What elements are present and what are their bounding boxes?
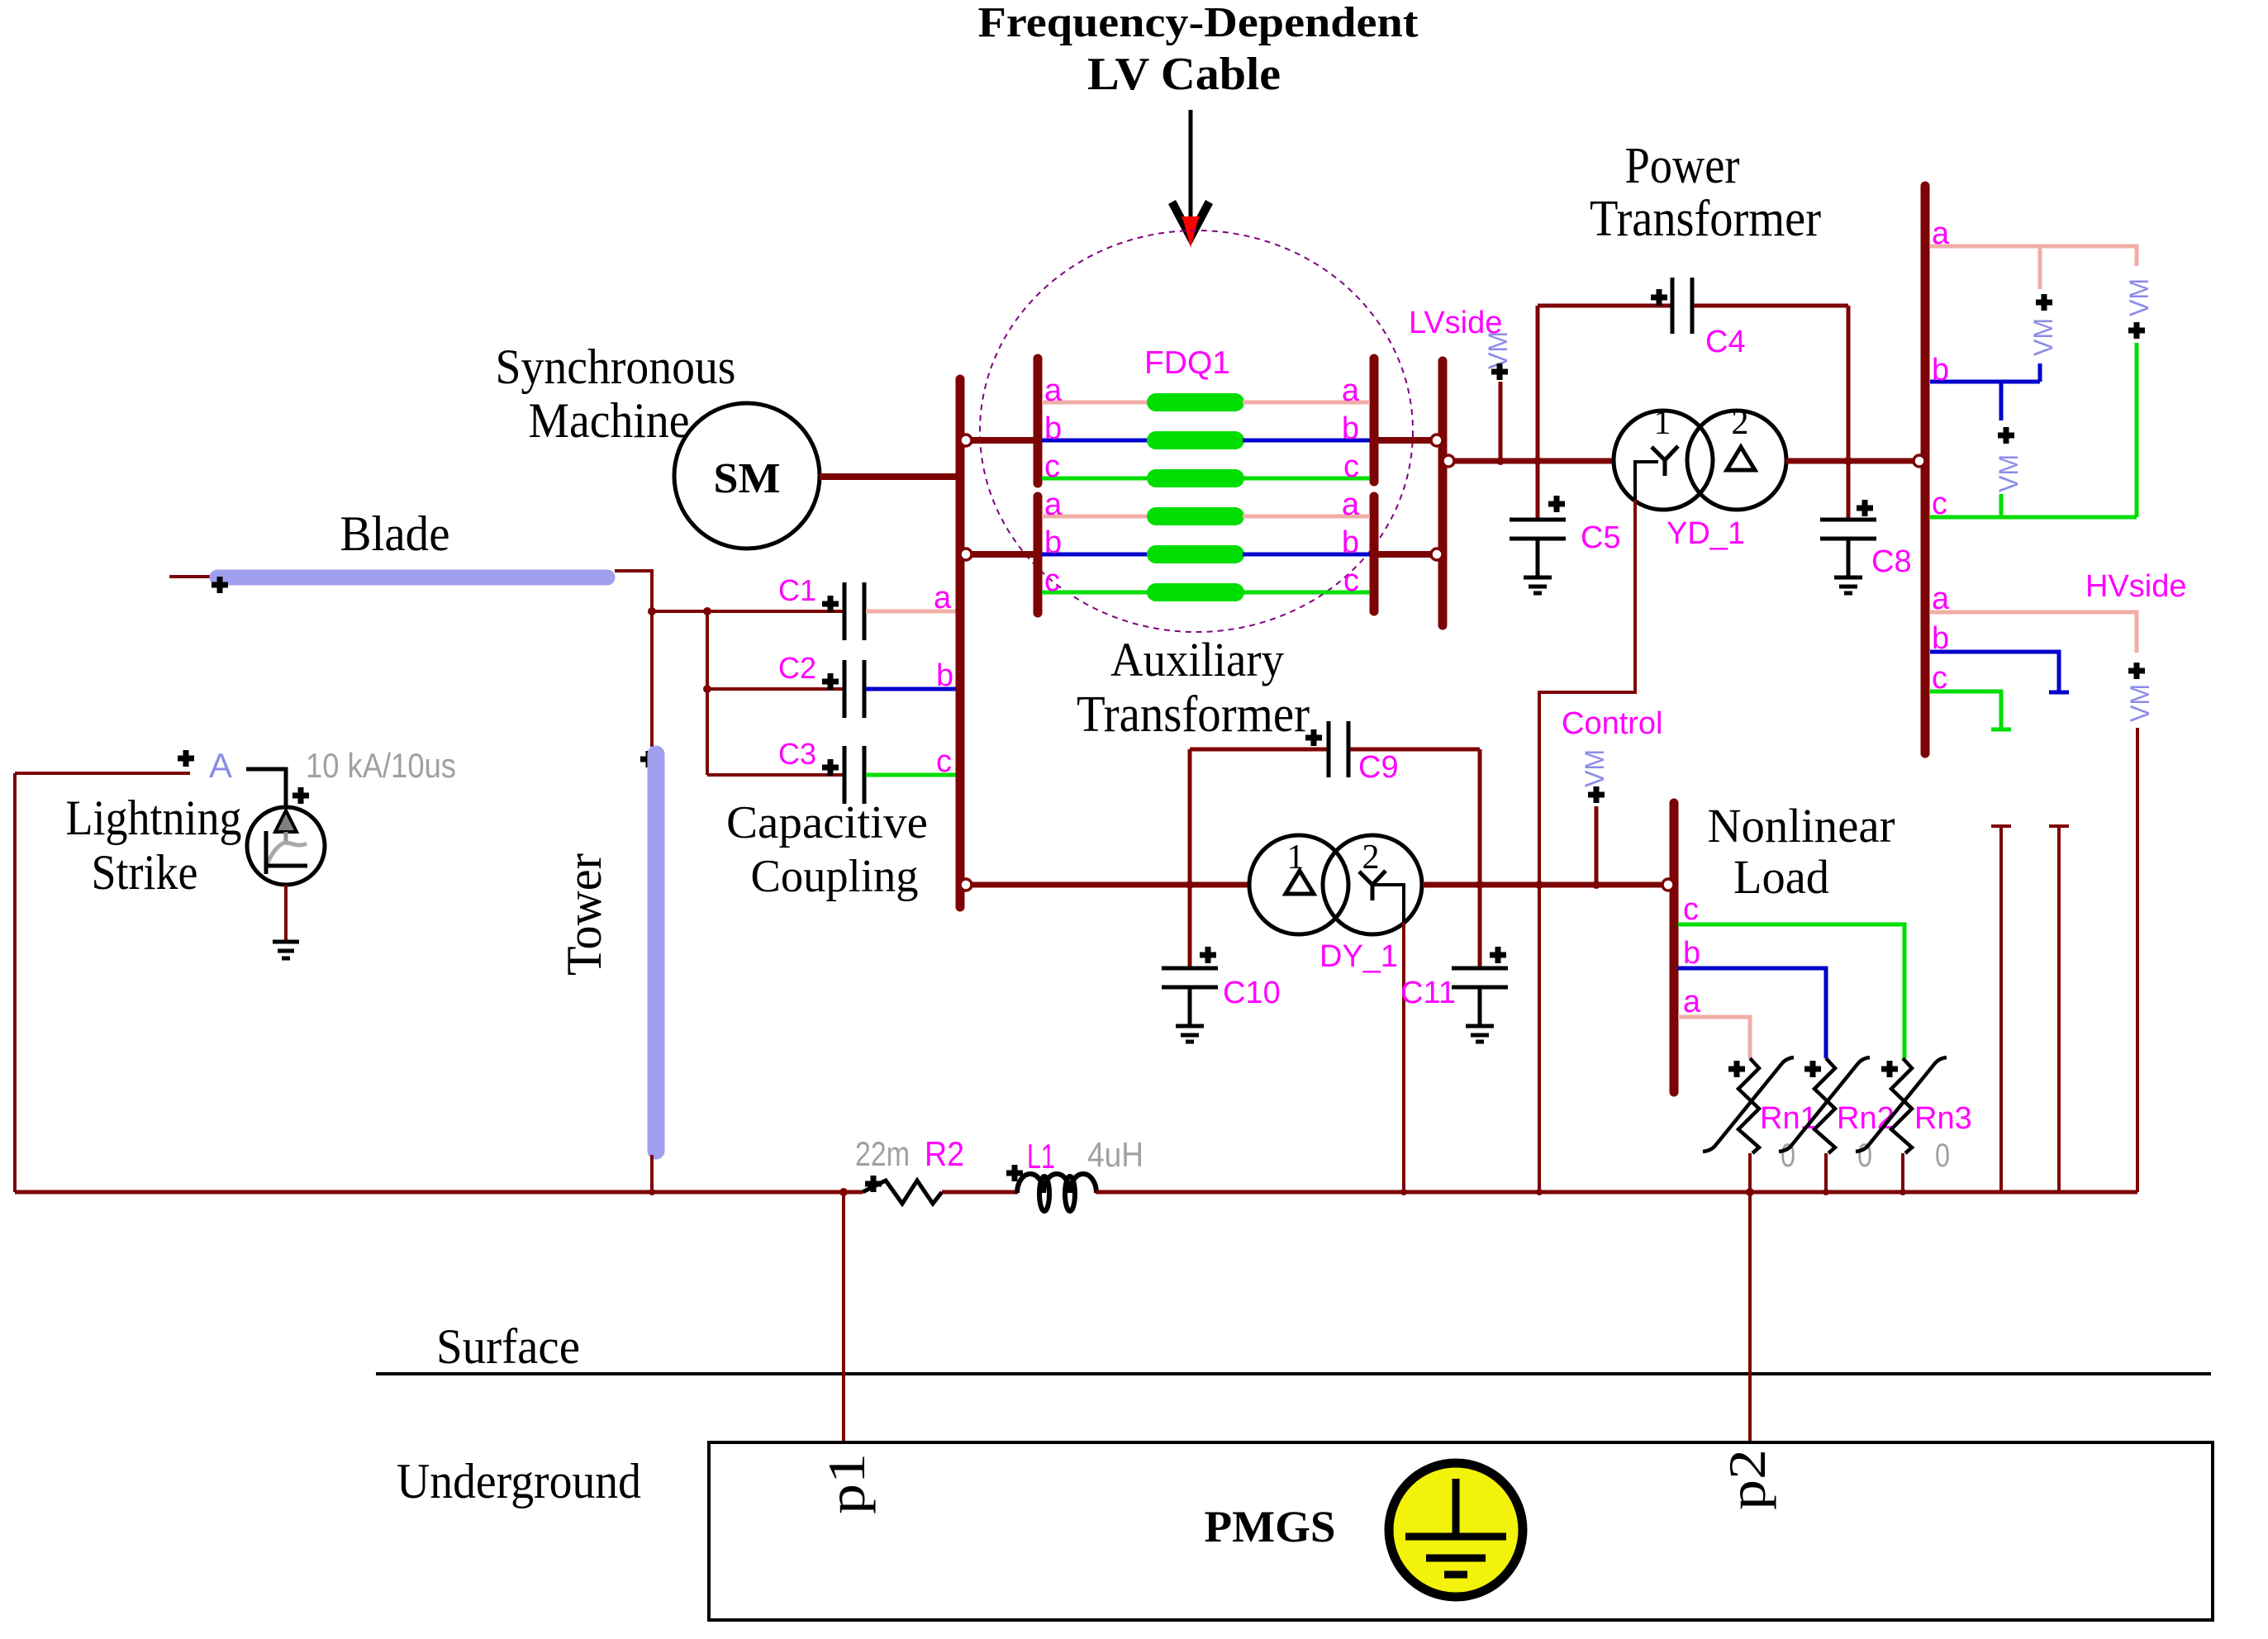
wire VM bc stub green: [1999, 494, 2004, 517]
svg-text:Lightning: Lightning: [66, 791, 242, 845]
wire FDQ phase b right (y=533): [1243, 439, 1370, 443]
wire C4 right vertical: [1847, 306, 1851, 461]
plus of C9: [1305, 729, 1322, 746]
capacitor C4: [1672, 278, 1692, 334]
svg-text:YD_1: YD_1: [1667, 516, 1745, 551]
voltmeter VM at LVside: [1483, 331, 1513, 461]
svg-text:C1: C1: [778, 573, 816, 607]
plus of C10: [1200, 947, 1216, 963]
svg-text:Auxiliary: Auxiliary: [1110, 633, 1284, 686]
bus stub FDQ to LVside bus top: [1374, 437, 1443, 444]
voltmeter VM at HVside a: [2125, 663, 2155, 722]
svg-text:c: c: [1044, 449, 1060, 484]
wire VM ab stub blue: [2038, 363, 2042, 382]
svg-text:c: c: [1343, 449, 1359, 484]
svg-text:c: c: [1932, 661, 1947, 696]
wire row to C2: [707, 687, 843, 691]
svg-text:4uH: 4uH: [1087, 1135, 1144, 1174]
wire HVside VM to ground bus: [2136, 728, 2139, 1192]
wire C9 right vertical to C11: [1478, 749, 1482, 968]
cable segment FDQ1 phase b (green pill): [1147, 545, 1244, 563]
text Lightning Strike: [66, 791, 242, 900]
voltmeter VM at Control: [1580, 749, 1609, 885]
nonlinear resistor Rn2: [1779, 1057, 1870, 1153]
wire HV phase b (blue) bottom set with end bar: [1930, 652, 2069, 692]
resistor R2 (zigzag): [863, 1181, 942, 1204]
delta symbol in YD_1 secondary: [1727, 447, 1755, 470]
svg-text:Tower: Tower: [557, 853, 611, 976]
plus of L1: [1006, 1165, 1023, 1181]
node A label and plus: [178, 746, 232, 785]
wire Rn3 bottom stub: [1901, 1153, 1904, 1192]
wire FDQ phase a right (y=625): [1243, 515, 1370, 519]
wire ground stub 2 with top bar: [2049, 826, 2069, 1192]
text Synchronous Machine: [496, 340, 736, 448]
neutral exit line of YD_1: [1635, 462, 1658, 500]
wire FDQ phase b left (y=671): [1042, 553, 1149, 557]
wire C9 left vertical: [1188, 749, 1192, 885]
plus of Rn1: [1728, 1061, 1745, 1077]
capacitor C2: [844, 660, 864, 718]
capacitor C8 to ground: [1820, 461, 1876, 593]
voltmeter VM b-c: [1994, 427, 2023, 492]
svg-text:C8: C8: [1871, 544, 1912, 579]
plus of C11: [1490, 947, 1506, 963]
bus LVside (vertical): [1438, 361, 1448, 625]
bus nonlinear load (vertical): [1670, 803, 1679, 1092]
svg-text:0: 0: [1935, 1138, 1950, 1174]
svg-text:DY_1: DY_1: [1319, 939, 1398, 974]
wire ground bus right segment: [1096, 1190, 2137, 1195]
junction C8 / C4 right: [1844, 457, 1852, 465]
junction p2 at ground bus: [1746, 1188, 1754, 1196]
surge current source I1 (lightning strike): [247, 807, 325, 885]
transformer DY_1: [1249, 835, 1422, 934]
wire FDQ phase c left (y=717): [1042, 591, 1149, 595]
wire DY_1 neutral to ground bus: [1402, 923, 1405, 1192]
svg-text:2: 2: [1362, 839, 1380, 877]
svg-text:Frequency-Dependent: Frequency-Dependent: [978, 0, 1419, 46]
svg-text:VM: VM: [1994, 454, 2023, 492]
nonlinear resistor Rn1: [1703, 1057, 1794, 1153]
bus stub machine to FDQ bottom: [960, 551, 1038, 558]
svg-text:c: c: [936, 744, 952, 779]
svg-text:c: c: [1932, 487, 1947, 521]
capacitor C1: [844, 582, 864, 640]
PMGS box: [709, 1442, 2213, 1620]
wire C9 row right: [1350, 748, 1480, 752]
plus at blade left end: [212, 577, 228, 593]
junction ring YD row at HV bus: [1914, 455, 1925, 467]
junction control at ground bus: [1536, 1189, 1543, 1195]
junction control VM stub: [1592, 881, 1600, 889]
svg-text:C4: C4: [1705, 325, 1746, 359]
capacitor C10 to ground: [1162, 885, 1218, 1042]
wire Rn1 bottom stub: [1748, 1153, 1752, 1192]
tower surge impedance (thick lavender bar): [648, 754, 665, 1151]
wire black from node A to source top: [246, 769, 286, 807]
wire SM to machine bus: [820, 473, 960, 480]
wire HV phase a (pink) bottom set: [1930, 612, 2137, 653]
svg-text:Transformer: Transformer: [1590, 191, 1821, 247]
plus at tower top: [640, 751, 657, 767]
wire C4 left vertical: [1536, 306, 1540, 461]
junction at tower wire and C1 row: [648, 607, 656, 615]
wire left loop from lightning source to ground bus: [15, 773, 190, 1192]
plus of C5: [1548, 496, 1565, 512]
wire YD_1 neutral down and to control bus: [1539, 500, 1635, 1192]
wire row DY_1 to load bus: [1423, 882, 1674, 888]
junction C9 right vertical at aux row: [1476, 881, 1484, 889]
text Auxiliary Transformer: [1077, 633, 1310, 743]
svg-text:Coupling: Coupling: [751, 851, 919, 902]
svg-text:c: c: [1683, 892, 1699, 927]
svg-text:Transformer: Transformer: [1077, 686, 1310, 743]
surface line: [376, 1372, 2211, 1375]
svg-text:Rn3: Rn3: [1914, 1101, 1972, 1136]
dashed highlight ellipse around FDQ1: [980, 230, 1413, 632]
svg-text:C3: C3: [778, 737, 816, 771]
transformer YD_1: [1614, 411, 1786, 510]
svg-text:2: 2: [1732, 404, 1749, 442]
junction C-coupling left bus top: [703, 607, 711, 615]
wire row LVside bus to YD_1 primary: [1443, 458, 1615, 464]
svg-text:a: a: [1342, 373, 1360, 408]
junction ring machine bus stub top: [960, 435, 972, 446]
junction LVside VM stub: [1496, 457, 1505, 465]
wire load phase a (pink): [1678, 1017, 1750, 1058]
junction ring YD row at LVside bus: [1443, 455, 1454, 467]
wire stub left of blade: [169, 575, 212, 578]
bus stub machine to FDQ top: [960, 437, 1038, 444]
wire C4 top right: [1694, 304, 1848, 308]
wire YD_1 secondary to HV bus: [1786, 458, 1925, 464]
plus at lightning source top: [292, 787, 309, 804]
wire FDQ phase c left (y=579): [1042, 477, 1149, 481]
junction ring aux row at load bus: [1662, 879, 1674, 891]
bus FDQ right upper: [1370, 359, 1379, 482]
inductor L1 (coil): [1017, 1174, 1096, 1211]
wire blade right end to tower top: [615, 571, 652, 747]
wire load phase c (green): [1678, 924, 1904, 1058]
wire row machine bus to DY_1: [960, 882, 1250, 888]
svg-text:L1: L1: [1027, 1137, 1055, 1176]
annotation arrow to FDQ1 cable: [1168, 110, 1213, 248]
wire VM ac green vertical: [2135, 343, 2139, 517]
junction ring machine bus stub bottom: [960, 549, 972, 560]
wire C4 top left: [1538, 304, 1671, 308]
cable segment FDQ1 phase a (green pill): [1147, 507, 1244, 525]
cable segment FDQ1 phase b (green pill): [1147, 431, 1244, 449]
svg-text:C9: C9: [1358, 750, 1399, 785]
svg-text:Control: Control: [1562, 706, 1663, 741]
svg-text:p1: p1: [817, 1453, 876, 1514]
wye symbol in YD_1 primary: [1652, 446, 1678, 476]
svg-text:LV Cable: LV Cable: [1087, 49, 1281, 100]
svg-text:VM: VM: [2028, 318, 2058, 356]
junction ring aux row at machine bus: [960, 879, 972, 891]
synchronous machine SM: [674, 403, 820, 549]
wire ground bus left segment: [15, 1190, 863, 1195]
capacitor C3: [844, 746, 864, 804]
plus of R2: [865, 1176, 882, 1192]
junction C9 left vertical: [1186, 881, 1194, 889]
plus of C1: [822, 596, 839, 612]
svg-text:b: b: [936, 658, 953, 693]
protective earth symbol (yellow): [1389, 1463, 1523, 1597]
svg-text:Synchronous: Synchronous: [496, 340, 736, 394]
svg-text:c: c: [1343, 563, 1359, 598]
svg-text:a: a: [1044, 487, 1063, 522]
wire FDQ phase a left (y=625): [1042, 515, 1149, 519]
svg-text:b: b: [1342, 411, 1359, 446]
wire row to C3: [707, 773, 843, 777]
svg-text:FDQ1: FDQ1: [1144, 345, 1230, 381]
junction control bus at aux row: [1535, 881, 1543, 889]
svg-text:1: 1: [1654, 404, 1671, 442]
voltmeter VM a-b: [2028, 294, 2058, 356]
wire between R2 and L1: [942, 1190, 1018, 1195]
svg-text:HVside: HVside: [2085, 569, 2187, 604]
wire phase c from C3 to machine bus (green): [866, 773, 958, 777]
wire Rn2 bottom stub: [1824, 1153, 1828, 1192]
svg-text:a: a: [1932, 216, 1950, 251]
plus of C3: [822, 759, 839, 776]
wire p1 to PMGS: [842, 1192, 845, 1442]
svg-text:VM: VM: [2125, 684, 2155, 722]
junction Rn3 at ground bus: [1900, 1189, 1906, 1195]
svg-text:SM: SM: [714, 455, 781, 502]
wire phase a from C1 to machine bus (pink): [866, 610, 958, 614]
svg-text:Surface: Surface: [436, 1319, 580, 1374]
svg-text:C5: C5: [1581, 520, 1621, 555]
junction DY_1 neutral at ground bus: [1400, 1189, 1407, 1195]
plus of C8: [1857, 500, 1873, 516]
svg-text:Power: Power: [1625, 138, 1740, 194]
voltmeter VM a-c: [2124, 278, 2154, 339]
svg-text:10 kA/10us: 10 kA/10us: [306, 746, 456, 785]
wire HV phase b (blue) top set: [1930, 380, 2040, 384]
bus HV (vertical): [1921, 186, 1930, 753]
junction p1 at ground bus: [839, 1188, 848, 1196]
svg-text:Capacitive: Capacitive: [726, 797, 928, 848]
svg-text:b: b: [1932, 353, 1949, 387]
wire load phase b (blue): [1678, 968, 1826, 1058]
cable segment FDQ1 phase c (green pill): [1147, 469, 1244, 487]
text Capacitive Coupling: [726, 797, 928, 902]
bus machine LV (vertical): [956, 379, 965, 907]
wire FDQ phase b left (y=533): [1042, 439, 1149, 443]
svg-text:a: a: [934, 581, 952, 615]
capacitor C9: [1329, 721, 1348, 777]
svg-text:A: A: [209, 746, 232, 785]
svg-text:b: b: [1044, 525, 1062, 560]
junction Rn2 at ground bus: [1823, 1189, 1829, 1195]
svg-text:b: b: [1342, 525, 1359, 560]
svg-text:Nonlinear: Nonlinear: [1708, 799, 1895, 853]
svg-text:Rn2: Rn2: [1837, 1101, 1895, 1136]
junction C4 left / C5: [1533, 457, 1542, 465]
junction aux row at machine bus: [956, 881, 964, 889]
wire phase b from C2 to machine bus (blue): [866, 687, 958, 691]
wire HV phase c (green) bottom set with end bar: [1930, 691, 2011, 729]
neutral exit line of DY_1: [1372, 885, 1404, 923]
wire FDQ phase b right (y=671): [1243, 553, 1370, 557]
capacitor C5 to ground: [1510, 461, 1566, 593]
svg-text:b: b: [1683, 936, 1700, 971]
svg-text:22m: 22m: [855, 1134, 910, 1173]
wire VM ab stub pink: [2038, 246, 2042, 289]
svg-text:a: a: [1342, 487, 1360, 522]
svg-text:Strike: Strike: [92, 845, 198, 900]
wire FDQ phase a right (y=487): [1243, 401, 1370, 405]
svg-text:b: b: [1044, 411, 1062, 446]
svg-text:a: a: [1683, 985, 1701, 1019]
junction tower at ground bus: [649, 1189, 655, 1195]
junction C-coupling left bus at C2 row: [703, 685, 711, 693]
plus of Rn3: [1881, 1061, 1898, 1077]
svg-text:R2: R2: [925, 1134, 964, 1173]
junction ring LVside bus stub bottom: [1431, 549, 1443, 560]
wire ground stub 1 with top bar: [1991, 826, 2011, 1192]
svg-text:Underground: Underground: [397, 1454, 641, 1508]
svg-text:b: b: [1932, 621, 1949, 656]
plus of C2: [822, 673, 839, 690]
svg-text:C10: C10: [1223, 976, 1281, 1010]
junction ring LVside bus stub top: [1431, 435, 1443, 446]
wire HV phase c (green) top set: [1930, 515, 2137, 520]
delta symbol in DY_1 primary: [1286, 871, 1314, 894]
svg-text:a: a: [1932, 582, 1950, 616]
wire lightning source to ground: [284, 885, 288, 942]
svg-text:a: a: [1044, 373, 1063, 408]
wire row to C1 from tower wire: [652, 610, 843, 613]
wire p2 to PMGS: [1748, 1192, 1752, 1442]
svg-text:C11: C11: [1400, 976, 1456, 1010]
wire FDQ phase c right (y=717): [1243, 591, 1370, 595]
bus FDQ left upper: [1034, 359, 1043, 483]
svg-text:C2: C2: [778, 651, 816, 685]
capacitor C11 to ground: [1452, 968, 1508, 1042]
bus FDQ right lower: [1370, 496, 1379, 611]
text Nonlinear Load: [1708, 799, 1895, 904]
blade surge impedance (thick lavender bar): [217, 570, 607, 586]
wire vertical C-coupling left bus: [706, 611, 709, 775]
svg-text:VM: VM: [2124, 278, 2154, 316]
wire VM bc stub blue: [1999, 382, 2004, 420]
svg-text:c: c: [1044, 563, 1060, 598]
plus of C4: [1651, 289, 1667, 306]
svg-text:Rn1: Rn1: [1760, 1101, 1818, 1136]
plus of Rn2: [1804, 1061, 1821, 1077]
nonlinear resistor Rn3: [1856, 1057, 1947, 1153]
svg-text:Load: Load: [1733, 850, 1829, 904]
svg-text:Blade: Blade: [340, 506, 450, 561]
cable segment FDQ1 phase c (green pill): [1147, 583, 1244, 601]
cable segment FDQ1 phase a (green pill): [1147, 393, 1244, 411]
ground below lightning source: [273, 942, 299, 958]
wye symbol in DY_1 secondary: [1359, 871, 1386, 900]
wire FDQ phase c right (y=579): [1243, 477, 1370, 481]
svg-text:Machine: Machine: [529, 393, 690, 448]
svg-text:VM: VM: [1580, 749, 1609, 787]
wire C9 row left: [1190, 748, 1327, 752]
wire HV phase a (pink) top set: [1930, 246, 2137, 266]
wire FDQ phase a left (y=487): [1042, 401, 1149, 405]
text Power Transformer: [1590, 138, 1821, 247]
svg-text:PMGS: PMGS: [1205, 1502, 1336, 1551]
bus stub FDQ to LVside bus bottom: [1374, 551, 1443, 558]
bus FDQ left lower: [1034, 496, 1043, 613]
svg-text:p2: p2: [1718, 1449, 1776, 1510]
wire tower bottom to ground bus: [650, 1155, 654, 1192]
junction HV bus at transformer row: [1921, 457, 1929, 465]
